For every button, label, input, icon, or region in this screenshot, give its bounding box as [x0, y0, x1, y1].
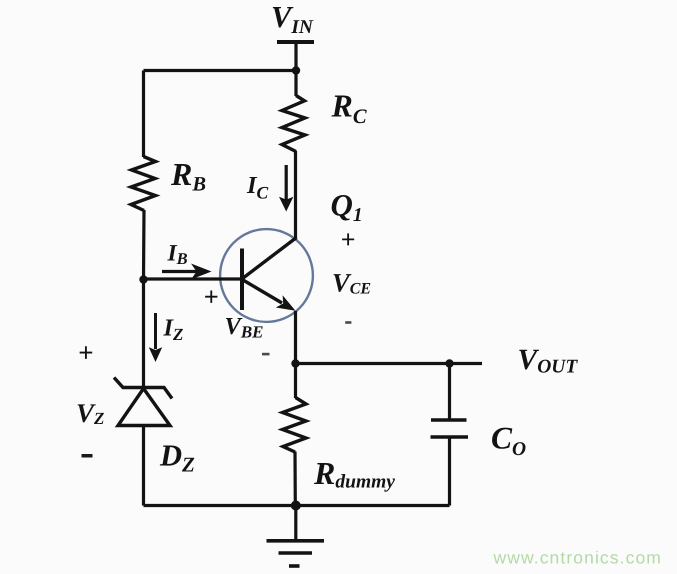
wire V_OUT horizontal [296, 362, 483, 365]
label minus V_CE [345, 321, 351, 324]
wire R_dummy to bottom [293, 452, 296, 506]
node emitter/V_OUT junction [291, 359, 299, 367]
wire V_IN stub [294, 42, 297, 71]
label minus V_BE [262, 353, 270, 356]
node top junction [292, 66, 300, 74]
zener diode D_Z cathode bar with tails [114, 378, 172, 399]
node capacitor junction [445, 359, 453, 367]
wire bottom horizontal [144, 504, 450, 507]
transistor Q1 collector diagonal [243, 238, 297, 279]
ground bar 1 [267, 539, 325, 543]
resistor R_B [131, 157, 156, 211]
wire R_C to collector [294, 151, 297, 238]
wire top horizontal [144, 69, 297, 72]
ground bar 2 [279, 551, 313, 555]
svg-text:+: + [204, 282, 219, 312]
transistor Q1 base bar [240, 249, 244, 311]
capacitor C_O bottom lead [448, 438, 451, 506]
wire left rail middle [142, 210, 146, 280]
ground stub [294, 506, 297, 541]
node ground junction [291, 501, 301, 511]
resistor R_C [282, 96, 305, 152]
svg-text:+: + [341, 225, 356, 254]
wire emitter vertical [294, 311, 297, 364]
arrow I_C [285, 165, 288, 200]
wire left rail lower [142, 280, 145, 388]
node base junction [139, 275, 147, 283]
zener diode D_Z triangle [118, 389, 170, 426]
wire V_OUT to R_dummy [294, 364, 297, 399]
V_IN terminal bar [277, 40, 314, 44]
label minus V_Z [82, 454, 93, 458]
svg-text:+: + [78, 338, 93, 368]
transistor Q1 circle [220, 229, 313, 322]
capacitor C_O top lead [448, 364, 451, 420]
capacitor C_O bottom plate [431, 435, 469, 439]
arrow I_B [162, 270, 199, 273]
arrow I_Z [154, 313, 157, 349]
svg-text:www.cntronics.com: www.cntronics.com [493, 548, 662, 568]
transistor Q1 emitter diagonal with arrow [243, 280, 282, 303]
wire left rail upper [142, 71, 145, 158]
wire base horizontal [144, 277, 243, 280]
wire junction to R_C [294, 71, 297, 97]
ground bar 3 [289, 564, 300, 568]
resistor R_dummy [283, 398, 307, 453]
capacitor C_O top plate [431, 418, 467, 422]
wire zener to bottom [142, 426, 145, 506]
